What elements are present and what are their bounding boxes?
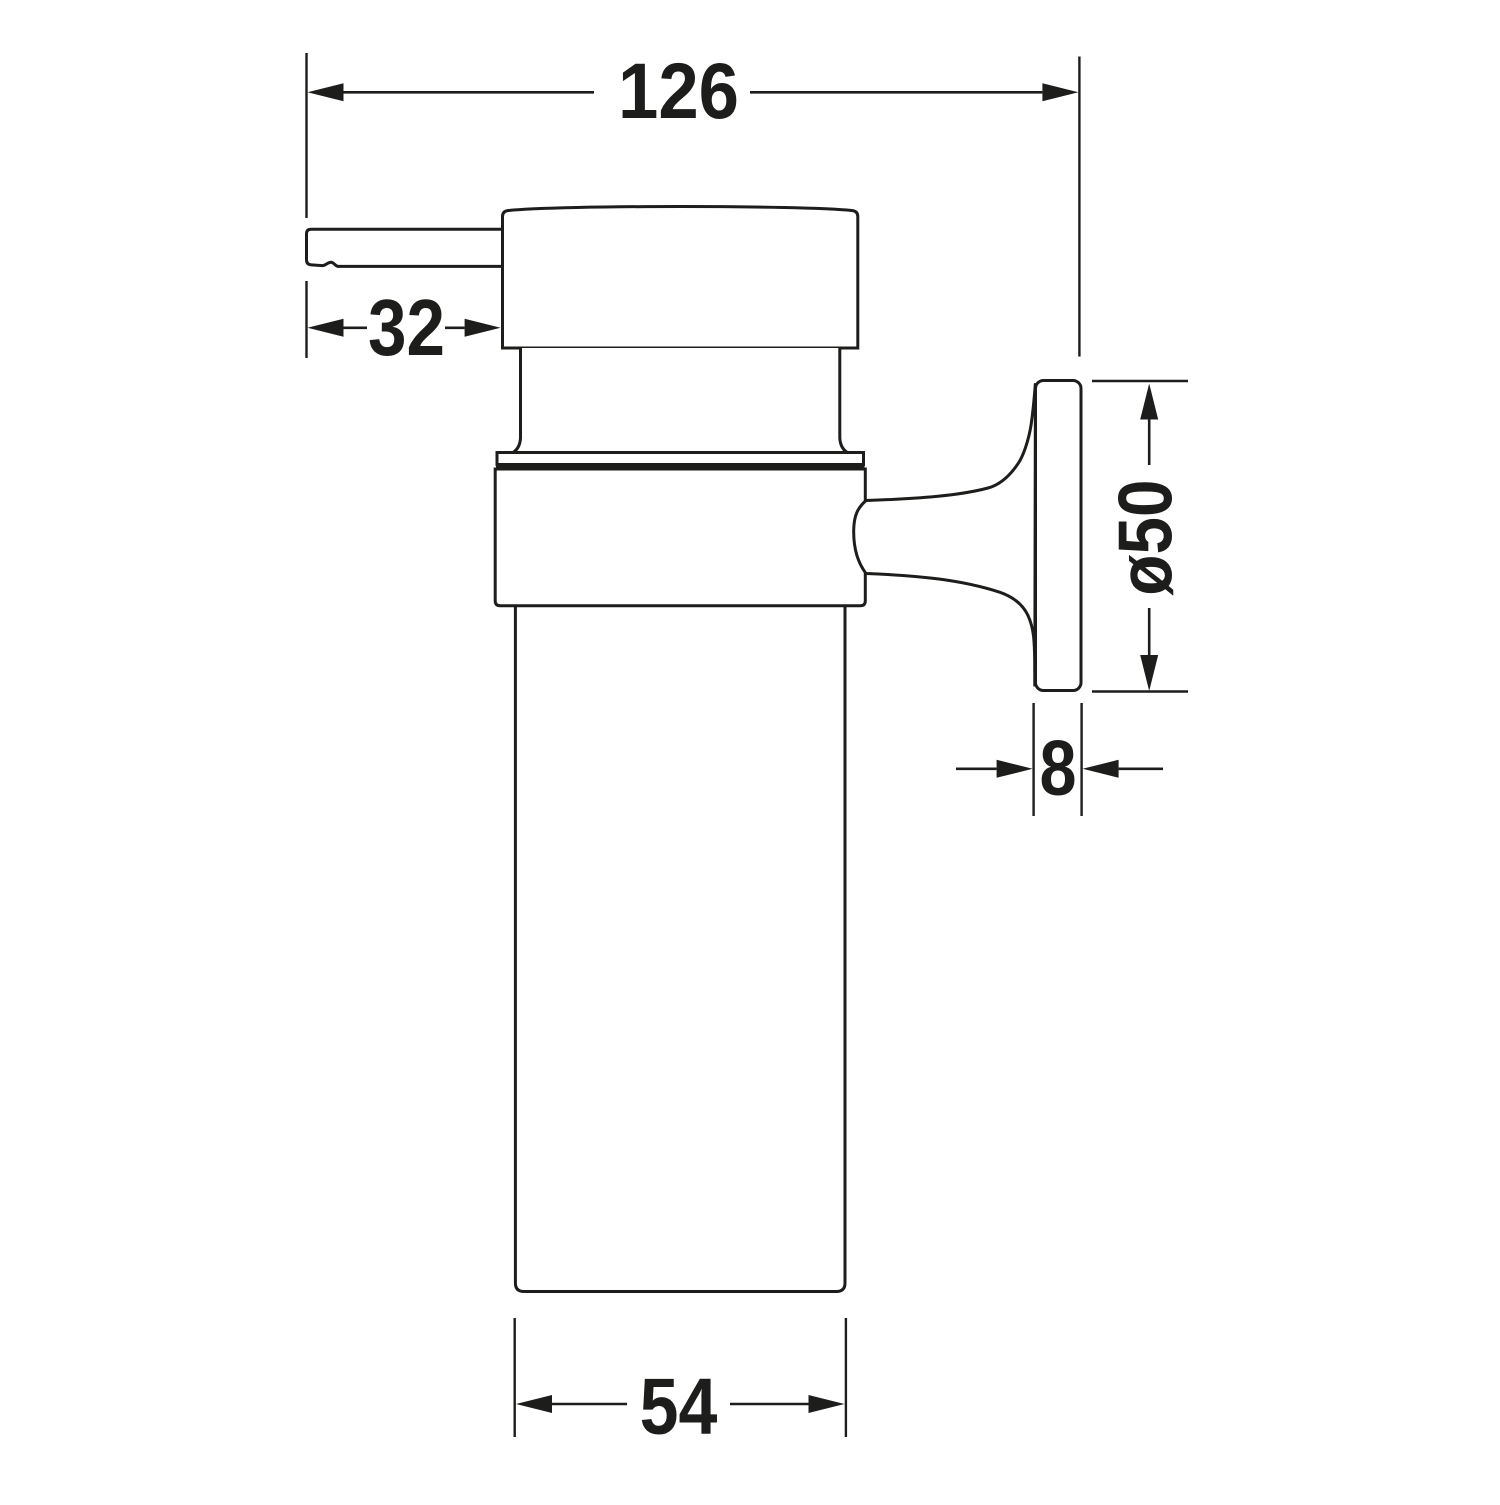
svg-text:126: 126 xyxy=(618,47,739,136)
dim 8: right extension line xyxy=(1080,703,1082,816)
svg-text:8: 8 xyxy=(1040,725,1077,812)
wall-mount arm (trumpet) xyxy=(854,383,1036,686)
dim 32: dimension line with arrows xyxy=(308,319,501,337)
dim ø50: label xyxy=(1104,479,1189,595)
flange lip xyxy=(497,453,864,465)
dim 126: left extension line xyxy=(305,53,307,358)
pump spout xyxy=(307,229,503,266)
dim 54: label xyxy=(640,1361,718,1450)
dim ø50: top extension line xyxy=(1092,380,1188,382)
wall plate xyxy=(1036,381,1082,691)
gasket dark band xyxy=(496,464,865,470)
pump neck xyxy=(513,348,847,453)
dim 126: dimension line with arrows xyxy=(308,83,1079,101)
body (bottle) xyxy=(515,604,845,1292)
svg-text:32: 32 xyxy=(368,282,445,372)
dim 32: label xyxy=(368,282,445,372)
dim 54: right extension line xyxy=(845,1318,847,1437)
collar xyxy=(495,469,865,606)
pump head cap xyxy=(503,207,858,348)
dim 54: dimension line with arrows xyxy=(516,1395,845,1413)
dim 126: right extension line xyxy=(1078,57,1080,357)
dim 8: label xyxy=(1040,725,1077,812)
svg-text:54: 54 xyxy=(640,1361,718,1450)
dim 126: label xyxy=(618,47,739,136)
dim 8: left extension line xyxy=(1032,703,1034,816)
dim ø50: dimension line with arrows xyxy=(1140,384,1158,692)
svg-text:ø50: ø50 xyxy=(1104,479,1189,595)
dim 54: left extension line xyxy=(514,1318,516,1437)
dim ø50: bottom extension line xyxy=(1092,690,1188,692)
dim 8: dimension line with arrows xyxy=(956,760,1163,778)
